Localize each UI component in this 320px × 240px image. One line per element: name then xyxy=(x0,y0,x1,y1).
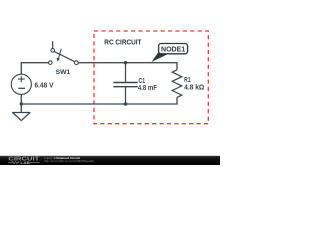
svg-text:R1: R1 xyxy=(184,77,190,84)
svg-text:NODE1: NODE1 xyxy=(161,47,185,54)
switch SW1 xyxy=(49,41,79,64)
wire: source top to switch left terminal xyxy=(21,63,48,74)
ground xyxy=(13,113,30,121)
junction at capacitor top xyxy=(124,61,127,64)
CircuitLab logo xyxy=(8,157,39,166)
svg-text:6.48 V: 6.48 V xyxy=(35,83,54,90)
svg-text:4.8 kΩ: 4.8 kΩ xyxy=(184,84,205,91)
voltage source V1 xyxy=(11,74,31,94)
node NODE1 flag xyxy=(152,44,188,63)
junction at capacitor bottom xyxy=(124,102,127,105)
wire: ground stub xyxy=(20,104,22,113)
svg-text:SW1: SW1 xyxy=(56,69,71,76)
capacitor C1 xyxy=(113,63,137,104)
svg-text:http://circuitlab.com/c/w38f29: http://circuitlab.com/c/w38f295aaa5b xyxy=(44,159,94,163)
svg-text:RC CIRCUIT: RC CIRCUIT xyxy=(104,40,142,47)
svg-text:4.8 mF: 4.8 mF xyxy=(138,85,158,92)
footer watermark bar xyxy=(0,156,220,165)
resistor R1 xyxy=(172,70,182,98)
junction at ground node xyxy=(20,102,23,105)
svg-text:LAB: LAB xyxy=(20,160,30,165)
RC CIRCUIT annotation box xyxy=(94,31,208,124)
wire: switch right terminal to resistor top corner xyxy=(78,63,177,70)
wire: bottom return from resistor to source/ground xyxy=(21,94,177,104)
